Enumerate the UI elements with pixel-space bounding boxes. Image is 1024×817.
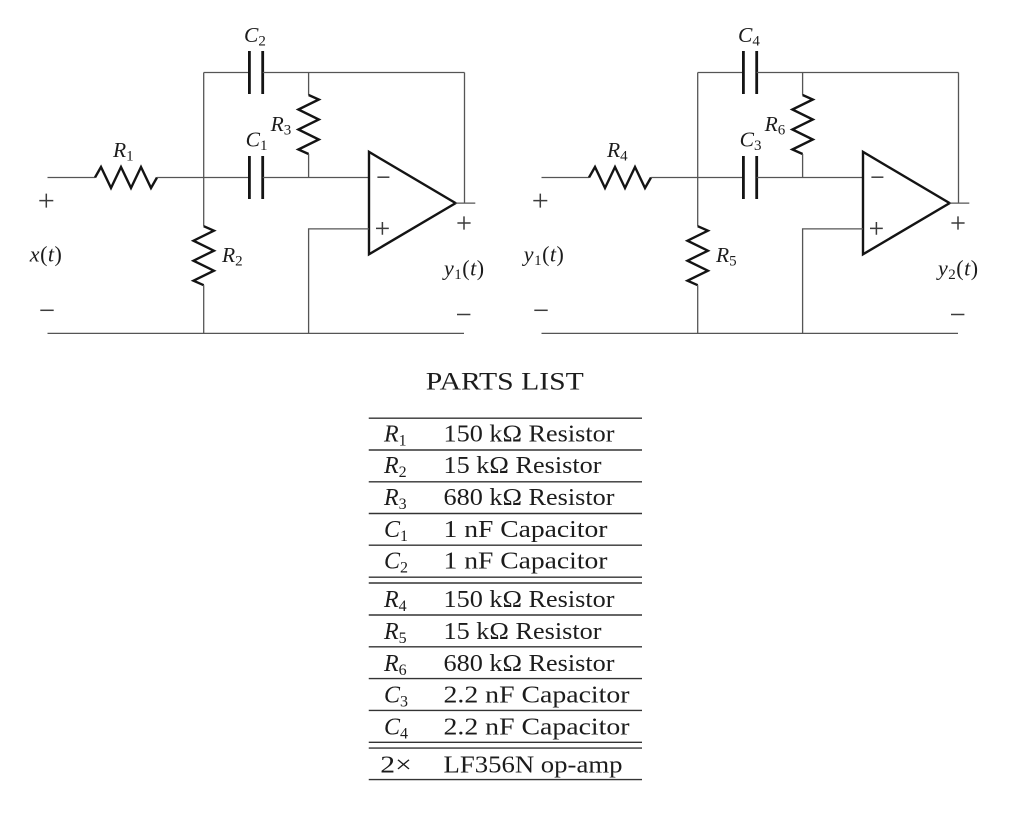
- svg-text:C1: C1: [246, 128, 268, 155]
- wire: top net right segment: [757, 72, 959, 74]
- svg-text:R5: R5: [383, 619, 407, 647]
- svg-text:R6: R6: [764, 112, 786, 139]
- resistor R2: [194, 178, 214, 334]
- svg-text:2.2 nF Capacitor: 2.2 nF Capacitor: [444, 714, 630, 740]
- wire: R4 to node A: [651, 177, 743, 179]
- wire: R1 to node A: [157, 177, 249, 179]
- table row: R3 = 680 kohm Resistor: [383, 485, 615, 513]
- output port - terminal: [457, 314, 470, 316]
- svg-text:x(t): x(t): [29, 242, 63, 267]
- svg-text:C1: C1: [384, 517, 408, 545]
- svg-text:150 kΩ Resistor: 150 kΩ Resistor: [444, 421, 615, 447]
- table rule: [369, 709, 642, 711]
- wire: output stub: [456, 202, 476, 204]
- table rule: [369, 779, 642, 781]
- svg-text:1 nF Capacitor: 1 nF Capacitor: [444, 517, 608, 543]
- svg-text:R1: R1: [383, 421, 407, 449]
- wire: input lead to R4: [542, 177, 590, 179]
- wire: non-inverting input to ground rail: [309, 229, 369, 334]
- svg-text:2×: 2×: [380, 752, 412, 778]
- capacitor C1: [249, 156, 262, 199]
- wire: ground rail: [48, 332, 465, 334]
- svg-text:R4: R4: [383, 587, 407, 615]
- svg-text:y2(t): y2(t): [936, 256, 979, 284]
- svg-text:15 kΩ Resistor: 15 kΩ Resistor: [444, 453, 602, 479]
- wire: feedback from output to top net: [958, 73, 960, 204]
- table rule: [369, 449, 642, 451]
- svg-text:C3: C3: [740, 128, 762, 155]
- output port + terminal: [951, 216, 964, 229]
- resistor R5: [688, 178, 708, 334]
- svg-text:2.2 nF Capacitor: 2.2 nF Capacitor: [444, 683, 630, 709]
- table row: 2x = LF356N op-amp: [380, 752, 622, 778]
- svg-text:1 nF Capacitor: 1 nF Capacitor: [444, 549, 608, 575]
- wire: top net left segment: [698, 72, 744, 74]
- table rule: [369, 678, 642, 680]
- table rule: [369, 582, 642, 584]
- table rule: [369, 513, 642, 515]
- op-amp U2: [863, 152, 950, 254]
- capacitor C4: [743, 51, 756, 94]
- svg-text:680 kΩ Resistor: 680 kΩ Resistor: [444, 651, 615, 677]
- input port - terminal: [40, 309, 53, 311]
- capacitor C3: [743, 156, 756, 199]
- svg-text:R6: R6: [383, 651, 407, 679]
- table row: C2 = 1 nF Capacitor: [384, 549, 608, 577]
- op-amp U1 non-inverting input marker: [376, 222, 389, 235]
- table rule: [369, 646, 642, 648]
- table row: R5 = 15 kohm Resistor: [383, 619, 602, 647]
- wire: C3 to inverting input: [757, 177, 863, 179]
- svg-text:y1(t): y1(t): [522, 242, 565, 270]
- wire: output stub: [950, 202, 970, 204]
- svg-text:R3: R3: [270, 112, 292, 139]
- wire: non-inverting input to ground rail: [803, 229, 863, 334]
- svg-text:C4: C4: [384, 714, 408, 742]
- op-amp U2 non-inverting input marker: [870, 222, 883, 235]
- table rule: [369, 614, 642, 616]
- svg-text:C2: C2: [384, 549, 408, 577]
- resistor R6: [792, 73, 812, 178]
- wire: top net left segment: [204, 72, 250, 74]
- table row: R1 = 150 kohm Resistor: [383, 421, 615, 449]
- table rule: [369, 544, 642, 546]
- table row: R2 = 15 kohm Resistor: [383, 453, 602, 481]
- table row: C3 = 2.2 nF Capacitor: [384, 683, 630, 711]
- table rule: [369, 417, 642, 419]
- svg-text:150 kΩ Resistor: 150 kΩ Resistor: [444, 587, 615, 613]
- output port + terminal: [457, 216, 470, 229]
- table rule: [369, 747, 642, 749]
- svg-text:15 kΩ Resistor: 15 kΩ Resistor: [444, 619, 602, 645]
- table rule: [369, 576, 642, 578]
- resistor R3: [298, 73, 318, 178]
- svg-text:R1: R1: [112, 138, 134, 165]
- svg-text:C4: C4: [738, 23, 760, 50]
- table rule: [369, 481, 642, 483]
- table row: C1 = 1 nF Capacitor: [384, 517, 608, 545]
- table rule: [369, 741, 642, 743]
- op-amp U1 inverting input marker: [377, 176, 389, 178]
- table row: C4 = 2.2 nF Capacitor: [384, 714, 630, 742]
- svg-text:R5: R5: [715, 243, 737, 270]
- wire: top net right segment: [263, 72, 465, 74]
- wire: feedback from output to top net: [464, 73, 466, 204]
- resistor R4: [589, 167, 651, 188]
- resistor R1: [95, 167, 157, 188]
- svg-text:R2: R2: [383, 453, 407, 481]
- svg-text:y1(t): y1(t): [442, 256, 485, 284]
- svg-text:C2: C2: [244, 23, 266, 50]
- svg-text:680 kΩ Resistor: 680 kΩ Resistor: [444, 485, 615, 511]
- capacitor C2: [249, 51, 262, 94]
- svg-text:LF356N op-amp: LF356N op-amp: [444, 752, 623, 778]
- input port - terminal: [534, 309, 547, 311]
- wire: node A up to top net: [697, 73, 699, 178]
- svg-text:PARTS LIST: PARTS LIST: [426, 369, 584, 396]
- svg-text:C3: C3: [384, 683, 408, 711]
- table row: R6 = 680 kohm Resistor: [383, 651, 615, 679]
- op-amp U1: [369, 152, 456, 254]
- svg-text:R2: R2: [221, 243, 243, 270]
- wire: node A up to top net: [203, 73, 205, 178]
- output port - terminal: [951, 314, 964, 316]
- wire: ground rail: [542, 332, 959, 334]
- input port + terminal: [39, 194, 53, 208]
- table row: R4 = 150 kohm Resistor: [383, 587, 615, 615]
- input port + terminal: [533, 194, 547, 208]
- svg-text:R4: R4: [606, 138, 628, 165]
- wire: C1 to inverting input: [263, 177, 369, 179]
- svg-text:R3: R3: [383, 485, 407, 513]
- op-amp U2 inverting input marker: [871, 176, 883, 178]
- wire: input lead to R1: [48, 177, 96, 179]
